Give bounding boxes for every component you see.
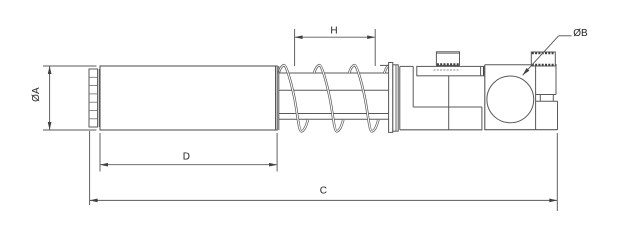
upper jaw xyxy=(536,64,556,95)
svg-text:D: D xyxy=(183,152,190,163)
svg-text:C: C xyxy=(320,185,327,196)
spring coil 4 (partially hidden by washer) xyxy=(384,65,413,131)
leader line for B xyxy=(523,36,572,75)
clamp hub xyxy=(400,66,483,129)
dimension A extension lines xyxy=(43,65,97,67)
lower jaw xyxy=(536,101,558,130)
wire: spring rod top line xyxy=(279,89,389,91)
dimension H extension lines xyxy=(294,29,296,66)
cylinder body xyxy=(100,66,279,130)
dimension D line xyxy=(100,164,276,166)
flange plate xyxy=(393,65,398,131)
spring coil 2 xyxy=(314,65,343,131)
dimension H line xyxy=(295,36,375,38)
spring coil 1 xyxy=(279,65,308,131)
wire: spring tube bottom line xyxy=(279,118,389,120)
bore circle B xyxy=(487,76,534,123)
dimension A line xyxy=(49,67,51,130)
dimension D extension lines xyxy=(99,133,101,172)
thumbscrew T1 xyxy=(434,52,460,70)
svg-text:H: H xyxy=(330,26,337,37)
clamp main block xyxy=(484,65,557,130)
screw shank in slit xyxy=(540,95,553,102)
wire: spring tube top line xyxy=(279,72,389,74)
svg-text:ØA: ØA xyxy=(31,87,42,102)
dimension C extension lines xyxy=(89,131,91,205)
spring coil 3 xyxy=(349,65,378,131)
wire: spring end-coil seat line xyxy=(380,64,389,66)
thumbscrew T2 xyxy=(531,52,555,66)
svg-text:ØB: ØB xyxy=(573,28,588,39)
wire: spring rod bottom line xyxy=(279,113,389,115)
clamp top bar xyxy=(417,66,484,75)
dimension C line xyxy=(90,199,557,201)
spring washer xyxy=(389,63,393,133)
knurled end cap xyxy=(89,69,99,127)
